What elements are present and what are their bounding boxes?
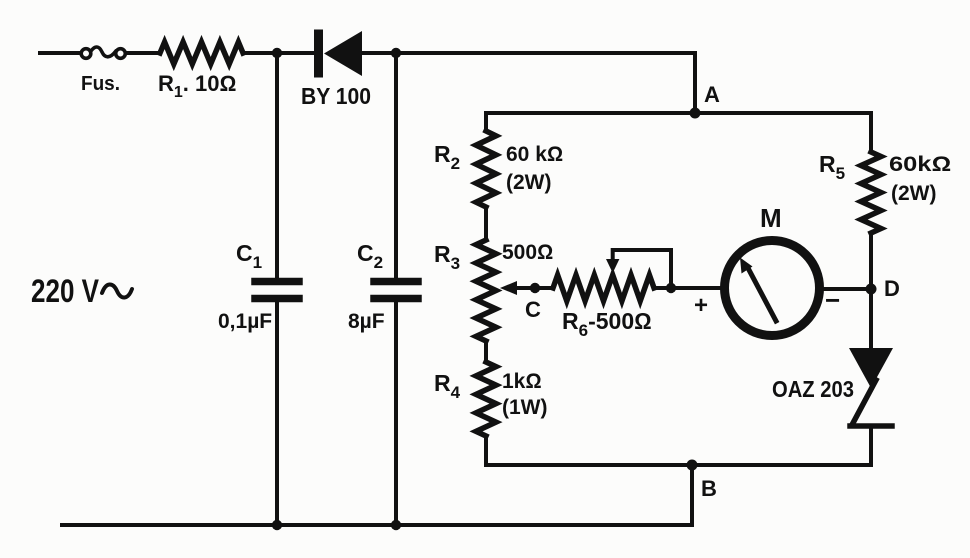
svg-text:B: B [701, 476, 717, 501]
wire bottom rail [62, 523, 692, 527]
svg-text:R3: R3 [434, 241, 460, 273]
svg-text:M: M [760, 203, 782, 233]
svg-text:R6-500Ω: R6-500Ω [562, 308, 652, 340]
wire to top-right corner [430, 53, 695, 113]
capacitor C1 top lead [275, 53, 279, 278]
wire R1 to node C1-top [243, 51, 313, 55]
svg-text:C: C [525, 297, 541, 322]
diode BY 100 cathode bar [314, 34, 323, 73]
capacitor C1 plates [255, 278, 299, 286]
wire R4 to bottom-left corner [484, 436, 488, 465]
wire top-left from AC source to fuse [40, 51, 80, 55]
R3 wiper arrow [515, 286, 536, 290]
wire bridge left top segment [484, 113, 488, 131]
svg-text:A: A [704, 82, 720, 107]
svg-text:Fus.: Fus. [81, 73, 120, 95]
svg-text:R4: R4 [434, 370, 461, 402]
wire bridge top rail [486, 111, 871, 115]
label 220V sine symbol [102, 284, 132, 297]
svg-text:−: − [825, 285, 840, 315]
svg-text:8µF: 8µF [348, 310, 385, 333]
wire R6 to meter [654, 286, 721, 290]
resistor R2 [476, 131, 496, 207]
wire node C to R6 [535, 286, 553, 290]
wire R5 to zener [869, 233, 873, 348]
svg-text:C2: C2 [357, 240, 383, 272]
wire R3 to R4 [484, 341, 488, 362]
capacitor C2 plates [374, 278, 418, 286]
svg-text:(1W): (1W) [502, 396, 548, 419]
svg-text:R5: R5 [819, 151, 845, 183]
zener diode cathode bar [850, 423, 892, 429]
svg-text:(2W): (2W) [891, 182, 937, 205]
node C1-bottom junction [272, 520, 282, 530]
meter M circle [725, 241, 820, 336]
resistor R3 (with wiper tap) [476, 240, 496, 341]
node R6 right terminal junction [666, 283, 676, 293]
svg-text:0,1µF: 0,1µF [218, 310, 272, 333]
resistor R5 [861, 152, 881, 233]
svg-text:C1: C1 [236, 240, 262, 272]
fuse Fus. [81, 47, 125, 58]
zener diode diagonal cathode stroke [853, 380, 876, 423]
svg-text:(2W): (2W) [506, 171, 552, 194]
svg-text:220 V: 220 V [31, 273, 100, 309]
svg-text:1kΩ: 1kΩ [502, 370, 542, 393]
svg-text:BY 100: BY 100 [301, 83, 371, 109]
meter needle arrowhead [740, 258, 753, 274]
zener bottom lead [869, 426, 873, 465]
node C1-top junction [272, 48, 282, 58]
svg-text:D: D [884, 276, 900, 301]
node C junction [530, 283, 540, 293]
capacitor C2 bottom lead [394, 302, 398, 525]
R6 wiper arrowhead [606, 259, 619, 273]
resistor R4 [476, 362, 496, 436]
svg-text:OAZ 203: OAZ 203 [772, 376, 854, 402]
diode BY 100 triangle [324, 31, 362, 76]
svg-text:+: + [694, 292, 708, 319]
zener diode OAZ 203 triangle [849, 348, 893, 388]
wire R2 to R3 [484, 207, 488, 240]
wire bridge bottom rail [486, 463, 871, 467]
wire meter to node D [824, 287, 871, 291]
node D junction [866, 284, 877, 295]
node A junction [690, 108, 701, 119]
meter needle [748, 268, 776, 321]
capacitor C1 bottom lead [275, 302, 279, 525]
capacitor C2 top lead [394, 53, 398, 278]
wire fuse to R1 [126, 51, 160, 55]
svg-text:R2: R2 [434, 141, 460, 173]
svg-text:60 kΩ: 60 kΩ [506, 143, 563, 166]
node C2-top junction [391, 48, 401, 58]
potentiometer R6 [553, 275, 654, 301]
wire bridge right top segment [869, 113, 873, 152]
node B junction [687, 460, 698, 471]
node C2-bottom junction [391, 520, 401, 530]
wire diode to node C2-top [362, 51, 430, 55]
svg-text:R1. 10Ω: R1. 10Ω [158, 71, 236, 101]
svg-text:60kΩ: 60kΩ [889, 153, 951, 176]
svg-text:500Ω: 500Ω [502, 241, 553, 264]
resistor R1 [160, 42, 243, 64]
wire node B to bottom rail [690, 465, 694, 525]
R6 wiper arrow stem and bracket [613, 250, 671, 288]
